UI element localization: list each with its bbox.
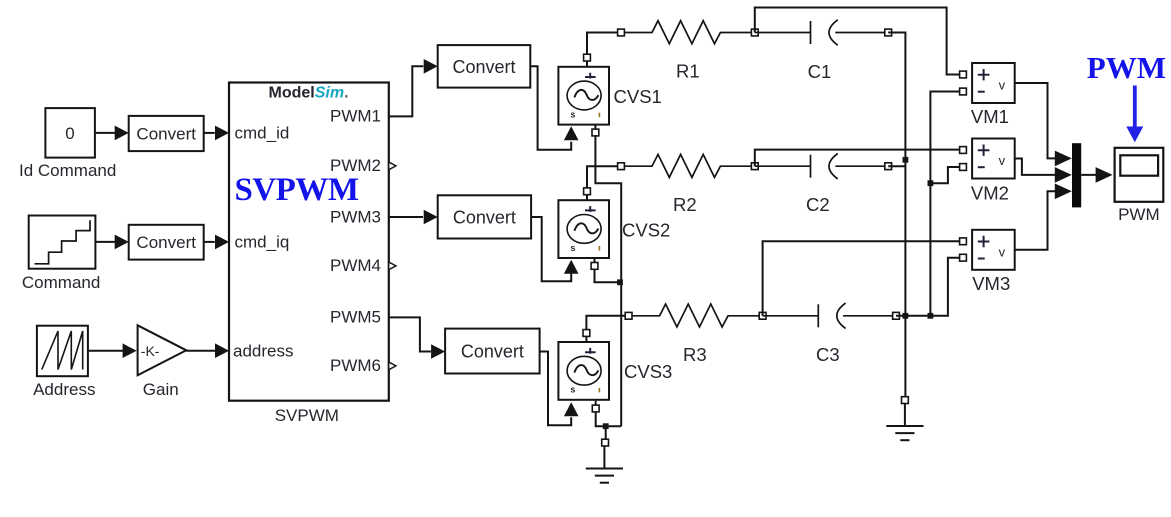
wire mux to scope	[1081, 167, 1112, 183]
svg-text:PWM: PWM	[1087, 50, 1166, 85]
port square C3 right	[893, 312, 900, 319]
svg-text:Address: Address	[33, 380, 95, 399]
ground symbol left	[586, 446, 623, 482]
port square VM2 plus	[960, 147, 967, 154]
port square VM3 minus	[960, 254, 967, 261]
port square CVS3 bottom	[592, 405, 599, 412]
wire R1-C1 node to VM1 plus	[755, 8, 960, 75]
wire 0 to Convert	[95, 126, 129, 141]
port square R1 left	[618, 29, 625, 36]
junction dot ground-left	[603, 423, 609, 429]
wire C1 right to common vertical	[888, 33, 905, 316]
svg-text:Convert: Convert	[452, 57, 515, 77]
svg-text:R3: R3	[683, 344, 707, 365]
svg-text:Convert: Convert	[136, 125, 196, 144]
controlled voltage source CVS1	[558, 67, 609, 125]
port square R3-C3 node	[759, 312, 766, 319]
ground symbol right	[886, 404, 923, 440]
wire CVS1 plus terminal up to node	[587, 33, 621, 67]
wire R3-C3 node to VM3 plus	[763, 241, 963, 316]
port square CVS1 top	[584, 54, 591, 61]
constant block Id Command (value 0)	[45, 108, 95, 158]
capacitor C1	[755, 20, 888, 45]
wire CVS3 minus terminal to ground	[596, 401, 622, 439]
svg-text:PWM2: PWM2	[330, 156, 381, 175]
voltage measurement VM1	[972, 63, 1015, 103]
wire CVS1 minus terminal to ground bus	[595, 125, 621, 427]
convert block (Iq path)	[129, 225, 204, 260]
svg-text:PWM6: PWM6	[330, 356, 381, 375]
resistor R2	[624, 154, 751, 177]
capacitor C3	[763, 303, 896, 328]
wire PWM3 to Convert2	[389, 210, 438, 225]
port square R3 left	[625, 312, 632, 319]
port square R2-C2 node	[751, 163, 758, 170]
convert block 3 (PWM5)	[445, 329, 539, 374]
svg-text:C2: C2	[806, 194, 830, 215]
wire CVS3 plus terminal up to node	[586, 316, 628, 342]
svg-text:Id Command: Id Command	[19, 161, 116, 180]
svg-text:Convert: Convert	[136, 233, 196, 252]
junction dot common-vertical at row3	[903, 313, 909, 319]
svg-text:cmd_iq: cmd_iq	[235, 233, 290, 252]
subsystem SVPWM	[229, 83, 389, 401]
controlled voltage source CVS3	[558, 342, 609, 400]
convert block 2 (PWM3)	[438, 195, 531, 238]
wire Convert to cmd_id	[204, 126, 229, 141]
port square VM1 plus	[960, 71, 967, 78]
wire Address to Gain	[88, 343, 137, 358]
port square VM3 plus	[960, 238, 967, 245]
wire PWM1 to Convert1	[389, 59, 438, 116]
svg-text:address: address	[233, 341, 293, 360]
repeating sequence block Address (sawtooth)	[37, 326, 88, 377]
wire R2-C2 node to VM2 plus	[755, 150, 963, 167]
svg-text:R2: R2	[673, 194, 697, 215]
wire Convert2 to CVS2 s-input	[531, 217, 578, 281]
convert block (Id path)	[129, 116, 204, 151]
output chevron PWM6	[389, 362, 396, 370]
output chevron PWM4	[389, 262, 396, 270]
resistor R3	[632, 304, 759, 327]
wire C3 right along common node to VM3 minus riser	[896, 258, 961, 316]
junction dot minus-bus at row3	[928, 313, 934, 319]
svg-text:CVS3: CVS3	[624, 361, 672, 382]
wire VM1 output to mux	[1015, 83, 1072, 166]
annotation blue arrow	[1126, 86, 1143, 143]
svg-text:PWM4: PWM4	[330, 256, 381, 275]
port square R2 left	[618, 163, 625, 170]
wire Command to Convert	[95, 235, 128, 250]
svg-text:PWM5: PWM5	[330, 308, 381, 327]
wire common vertical to right ground	[904, 316, 906, 397]
wire Convert to cmd_iq	[204, 235, 229, 250]
svg-text:Gain: Gain	[143, 380, 179, 399]
svg-text:0: 0	[65, 124, 74, 143]
wire Convert1 to CVS1 s-input	[530, 66, 578, 149]
wire CVS2 plus terminal up to node	[587, 166, 621, 200]
svg-text:VM3: VM3	[972, 273, 1010, 294]
svg-text:PWM: PWM	[1118, 205, 1160, 224]
wire Gain to address	[186, 343, 229, 358]
gain block Gain (-K-)	[138, 325, 187, 375]
voltage measurement VM2	[972, 139, 1015, 179]
port square C2 right	[885, 163, 892, 170]
junction dot C2-common	[903, 157, 909, 163]
svg-text:PWM1: PWM1	[330, 107, 381, 126]
svg-text:SVPWM: SVPWM	[275, 406, 339, 425]
port square ground-left	[602, 439, 609, 446]
voltage measurement VM3	[972, 230, 1015, 270]
svg-text:CVS2: CVS2	[622, 220, 670, 241]
port square CVS3 top	[583, 330, 590, 337]
port square R1-C1 node	[751, 29, 758, 36]
svg-text:VM2: VM2	[971, 183, 1009, 204]
junction dot VM2minus-bus	[928, 180, 934, 186]
convert block 1 (PWM1)	[438, 45, 531, 88]
svg-text:R1: R1	[676, 61, 700, 82]
port square C1 right	[885, 29, 892, 36]
port square CVS2 bottom	[591, 263, 598, 270]
svg-text:-K-: -K-	[141, 343, 160, 359]
svg-text:SVPWM: SVPWM	[235, 172, 359, 208]
wire CVS2 minus terminal to ground bus	[595, 258, 622, 282]
wire VM1 minus to minus bus	[930, 92, 959, 316]
port square ground-right	[902, 397, 909, 404]
svg-text:C3: C3	[816, 344, 840, 365]
svg-text:Convert: Convert	[461, 342, 524, 362]
output chevron PWM2	[389, 162, 396, 170]
svg-text:ModelSim.: ModelSim.	[269, 85, 349, 102]
wire VM2 output to mux	[1015, 159, 1072, 183]
controlled voltage source CVS2	[558, 200, 609, 258]
capacitor C2	[755, 154, 888, 179]
svg-text:Convert: Convert	[453, 207, 516, 227]
svg-text:CVS1: CVS1	[614, 86, 662, 107]
svg-text:VM1: VM1	[971, 106, 1009, 127]
resistor R1	[624, 21, 751, 44]
wire VM2 minus jog to minus bus	[930, 167, 959, 183]
port square CVS1 bottom	[592, 129, 599, 136]
junction dot CVS2-bus	[617, 279, 623, 285]
svg-text:C1: C1	[808, 61, 832, 82]
svg-text:Command: Command	[22, 273, 100, 292]
port square VM1 minus	[960, 88, 967, 95]
svg-text:PWM3: PWM3	[330, 208, 381, 227]
wire C2 right to common vertical	[888, 165, 905, 167]
wire Convert3 to CVS3 s-input	[540, 352, 579, 426]
port square CVS2 top	[584, 188, 591, 195]
wire PWM5 to Convert3	[389, 317, 445, 358]
mux block	[1072, 143, 1081, 207]
signal builder block Command (staircase)	[29, 216, 96, 269]
port square VM2 minus	[960, 164, 967, 171]
svg-text:cmd_id: cmd_id	[235, 124, 290, 143]
scope block PWM	[1115, 148, 1164, 202]
wire VM3 output to mux	[1015, 184, 1072, 250]
